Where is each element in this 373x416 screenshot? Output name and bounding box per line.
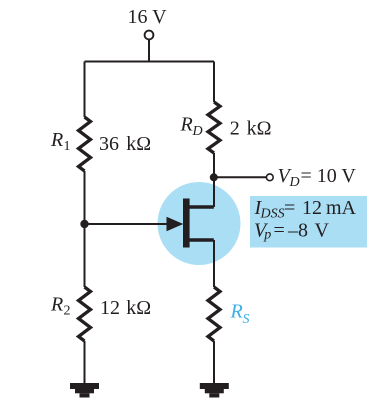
svg-text:kΩ: kΩ xyxy=(126,297,151,319)
svg-text:= 10 V: = 10 V xyxy=(301,165,357,187)
svg-text:2: 2 xyxy=(64,304,71,319)
svg-text:kΩ: kΩ xyxy=(247,118,272,140)
svg-text:R: R xyxy=(50,294,63,316)
svg-text:=: = xyxy=(284,197,295,219)
svg-text:mA: mA xyxy=(326,197,357,219)
svg-text:1: 1 xyxy=(64,139,71,154)
svg-text:kΩ: kΩ xyxy=(126,133,151,155)
svg-text:12: 12 xyxy=(302,197,322,219)
svg-text:V: V xyxy=(315,220,330,242)
svg-text:D: D xyxy=(289,175,300,190)
svg-text:36: 36 xyxy=(99,133,119,155)
svg-text:R: R xyxy=(180,114,193,136)
svg-text:12: 12 xyxy=(100,297,120,319)
svg-text:2: 2 xyxy=(230,118,240,140)
svg-text:16 V: 16 V xyxy=(128,6,168,28)
svg-text:=: = xyxy=(274,220,285,242)
svg-text:R: R xyxy=(50,129,63,151)
svg-text:–8: –8 xyxy=(287,220,308,242)
svg-text:S: S xyxy=(243,312,250,327)
svg-text:R: R xyxy=(230,301,243,323)
svg-text:p: p xyxy=(263,228,271,243)
svg-text:D: D xyxy=(192,124,203,139)
